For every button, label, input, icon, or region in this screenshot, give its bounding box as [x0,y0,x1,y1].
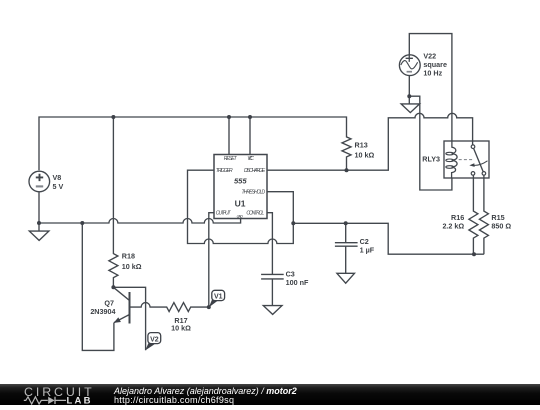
svg-text:RLY3: RLY3 [422,155,440,164]
svg-text:5 V: 5 V [53,182,64,191]
svg-text:R18: R18 [122,252,135,261]
svg-text:10 kΩ: 10 kΩ [355,150,375,159]
svg-text:http://circuitlab.com/ch6f9sq: http://circuitlab.com/ch6f9sq [114,395,234,405]
svg-text:CONTROL: CONTROL [246,211,264,217]
svg-text:DISCHARGE: DISCHARGE [244,168,266,174]
svg-text:2.2 kΩ: 2.2 kΩ [442,222,464,231]
svg-text:V2: V2 [150,336,159,343]
svg-text:V1: V1 [214,293,223,300]
svg-text:R13: R13 [355,141,368,150]
svg-text:555: 555 [234,177,247,186]
svg-text:R15: R15 [491,213,504,222]
svg-text:THRESHOLD: THRESHOLD [242,190,266,196]
svg-text:100 nF: 100 nF [286,278,309,287]
svg-text:R16: R16 [451,213,464,222]
svg-text:850 Ω: 850 Ω [491,222,511,231]
svg-text:10 kΩ: 10 kΩ [122,262,142,271]
svg-text:10 kΩ: 10 kΩ [171,323,191,332]
svg-text:2N3904: 2N3904 [90,307,115,316]
svg-text:OUTPUT: OUTPUT [216,211,232,217]
svg-text:TRIGGER: TRIGGER [216,168,233,174]
svg-text:V8: V8 [53,173,62,182]
svg-text:LAB: LAB [67,395,93,405]
svg-text:RESET: RESET [224,156,238,162]
svg-text:VCC: VCC [247,156,254,162]
svg-text:1 µF: 1 µF [360,246,375,255]
svg-text:10 Hz: 10 Hz [423,68,442,77]
svg-text:U1: U1 [235,198,246,208]
svg-text:GND: GND [237,214,243,219]
